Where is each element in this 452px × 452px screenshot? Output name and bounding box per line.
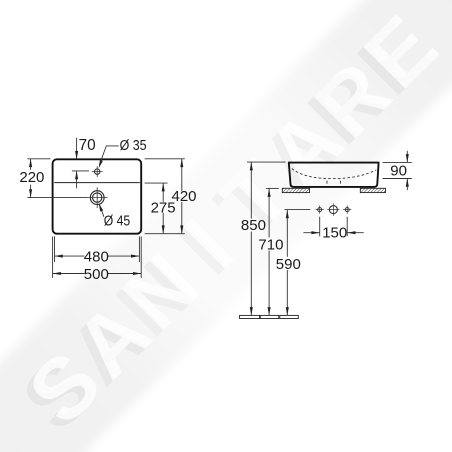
tap hole right circle (345, 208, 349, 212)
dim 220 line lower (30, 185, 32, 198)
basin outer rect (53, 159, 142, 233)
svg-text:Ø 45: Ø 45 (104, 213, 131, 230)
dim 150 arrow right (311, 231, 319, 234)
faucet hole crosshair (92, 166, 103, 177)
tap holes centerline ext (285, 209, 311, 211)
drain inner circle (93, 193, 102, 202)
dim 420 line lower (181, 202, 183, 234)
dim 590 line lower (286, 270, 288, 315)
dim 150 line right (347, 232, 364, 234)
dim 220 ext bottom / drain centerline (27, 197, 87, 199)
dim 220 ext top (27, 158, 50, 160)
dim 70 upper line (76, 138, 78, 159)
dim 480/500 ext left inner (54, 236, 56, 262)
svg-text:850: 850 (241, 217, 266, 234)
dim 420 line upper (181, 159, 183, 192)
faucet hole circle (95, 169, 100, 174)
svg-text:150: 150 (322, 225, 347, 242)
dim 850 line upper (250, 162, 252, 219)
dim 90 arrow up (406, 179, 409, 187)
floor bar 3 (280, 315, 299, 318)
bowl drain ticks (327, 181, 341, 184)
dim 850 line lower (250, 232, 252, 316)
leader Ø35 arrow (99, 160, 103, 168)
dim 150 arrow left (347, 231, 355, 234)
dim 150 line left (303, 232, 319, 234)
dim 275 ext top (145, 182, 168, 184)
tap hole right crosshair (343, 206, 351, 214)
leader Ø45 arrow (99, 203, 103, 211)
leader Ø45 (99, 205, 104, 217)
svg-text:480: 480 (84, 248, 109, 265)
dim 590 arrow up (286, 210, 289, 218)
dim 480 line left (55, 255, 85, 257)
dim 590 line upper (286, 210, 288, 257)
dim 150 ext right (346, 217, 348, 237)
dim 220 arrow down (29, 189, 32, 197)
dim 480 arrow right (131, 255, 139, 258)
dim 220 line upper (30, 159, 32, 170)
left mounting pad (282, 188, 309, 192)
dim 850 arrow down (250, 307, 253, 315)
dim 70 arrow up (75, 171, 78, 179)
dim 90 line upper (406, 151, 408, 163)
svg-text:220: 220 (19, 169, 44, 186)
dim 850 ext top (247, 161, 286, 163)
dim 710 line lower (268, 251, 270, 316)
faucet center mark (72, 170, 89, 172)
dim 480 arrow left (55, 255, 63, 258)
svg-text:90: 90 (390, 162, 407, 179)
dim 275 arrow down (162, 225, 165, 233)
dim 90 ext bottom (383, 178, 412, 180)
dim 500 arrow right (133, 272, 141, 275)
dim 275 line lower (162, 213, 164, 234)
dim 590 arrow down (286, 307, 289, 315)
drain crosshair (87, 187, 108, 208)
dim 710 arrow up (268, 189, 271, 197)
dim 500 arrow left (53, 272, 61, 275)
dim 710 ext top (266, 187, 279, 189)
dim 70 lower line (76, 171, 78, 188)
dim 480 line right (108, 255, 139, 257)
basin rim step line (54, 182, 140, 184)
dim 500 line right (108, 273, 141, 275)
svg-text:500: 500 (84, 266, 109, 283)
drain outer circle (90, 191, 104, 205)
dim 70 arrow down (75, 151, 78, 159)
right mounting pad (360, 188, 385, 192)
tap hole center crosshair (327, 204, 339, 216)
tap hole center circle (329, 206, 337, 214)
dim 90 arrow down (406, 154, 409, 162)
tap hole left crosshair (316, 206, 324, 214)
svg-text:Ø 35: Ø 35 (120, 137, 147, 154)
dim 480/500 ext right inner (138, 236, 140, 262)
dim 710 line upper (268, 189, 270, 238)
dim 480/500 ext right outer (140, 236, 142, 278)
dim 420 ext top (145, 158, 185, 160)
dim 500 line left (53, 273, 85, 275)
floor bar 2 (260, 315, 279, 318)
dim 90 ext top (383, 161, 412, 163)
svg-text:590: 590 (276, 256, 301, 273)
svg-text:710: 710 (258, 237, 283, 254)
dim 275 arrow up (162, 183, 165, 191)
dim 275 line upper (162, 183, 164, 202)
dim 480/500 ext left outer (52, 236, 54, 278)
dim 90 line lower (406, 179, 408, 191)
basin profile (289, 163, 379, 187)
tap hole left circle (318, 208, 322, 212)
svg-text:70: 70 (79, 137, 96, 154)
dim 150 ext left (319, 217, 321, 237)
dim 220 arrow up (29, 159, 32, 167)
svg-text:275: 275 (151, 200, 176, 217)
dim 420 ext bottom (145, 233, 185, 235)
dim 710 arrow down (268, 307, 271, 315)
dim 850 arrow up (250, 162, 253, 170)
floor bar 1 (240, 315, 260, 318)
bowl dashed line (292, 169, 377, 179)
dim 420 arrow up (180, 159, 183, 167)
dim 420 arrow down (180, 225, 183, 233)
leader Ø35 (99, 146, 119, 165)
